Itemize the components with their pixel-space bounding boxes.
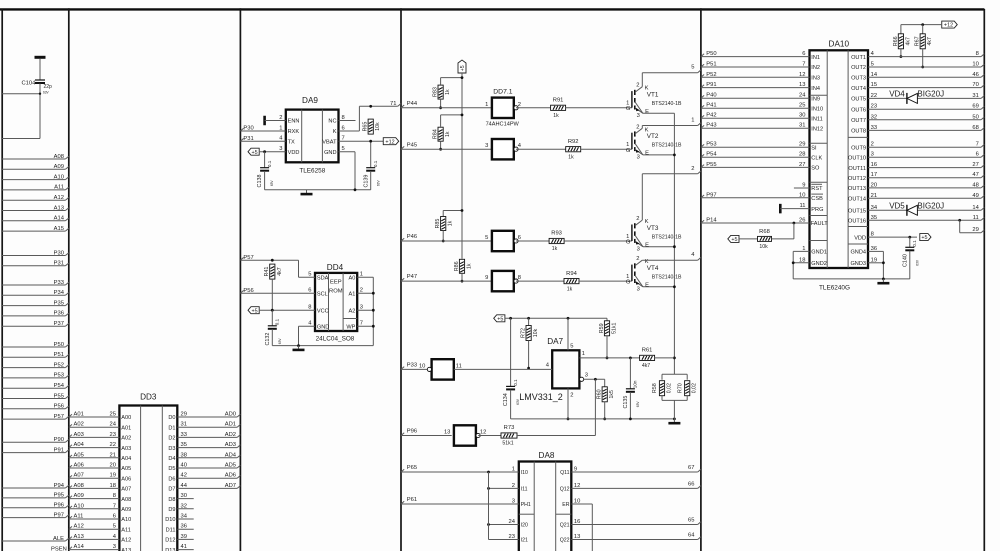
svg-text:P52: P52	[54, 362, 64, 368]
svg-text:AD0: AD0	[225, 412, 236, 418]
wire VT1 collector to net 5	[642, 65, 701, 73]
wire net ALE (MCU)	[2, 536, 69, 542]
svg-text:A01: A01	[74, 412, 84, 418]
svg-text:OUT12: OUT12	[848, 176, 866, 182]
wire net P91 (MCU)	[2, 447, 69, 453]
inverter gate DD7.1d	[485, 271, 521, 291]
resistor R61	[640, 348, 655, 370]
svg-text:14: 14	[972, 205, 979, 211]
svg-text:11: 11	[799, 203, 805, 209]
svg-text:P47: P47	[407, 274, 417, 280]
svg-text:6: 6	[342, 126, 345, 132]
DA10 pin 11 PRG with bar terminal	[780, 203, 823, 213]
svg-text:P53: P53	[706, 142, 716, 148]
svg-text:13: 13	[574, 534, 580, 540]
svg-text:P50: P50	[706, 51, 716, 57]
svg-text:16: 16	[871, 162, 877, 168]
DA7 pin 3 output	[580, 373, 605, 382]
svg-text:A12: A12	[74, 524, 84, 530]
svg-text:22: 22	[110, 442, 116, 448]
svg-text:D2: D2	[168, 436, 175, 442]
svg-text:DD7.1: DD7.1	[493, 89, 512, 96]
wire gate6 to R73	[478, 435, 501, 437]
svg-text:P34: P34	[54, 290, 65, 296]
wire DA8 Q12 to net 66	[560, 482, 701, 493]
capacitor C138	[257, 150, 274, 190]
svg-text:1: 1	[802, 246, 805, 252]
svg-text:P97: P97	[706, 192, 716, 198]
svg-text:63V: 63V	[278, 338, 282, 345]
svg-text:AD3: AD3	[225, 442, 236, 448]
DD4 pin 3 A2	[349, 305, 374, 315]
diode VD5	[889, 202, 944, 216]
svg-text:67: 67	[688, 465, 694, 471]
svg-text:IN1: IN1	[811, 55, 820, 61]
svg-text:PSEN: PSEN	[51, 546, 67, 551]
svg-text:D1: D1	[168, 425, 175, 431]
svg-text:D6: D6	[168, 476, 175, 482]
wire net P65	[401, 465, 528, 476]
chip DD3 body	[119, 406, 177, 551]
svg-text:GND3: GND3	[850, 261, 866, 267]
svg-text:A15: A15	[54, 226, 64, 232]
svg-text:47: 47	[972, 172, 978, 178]
wire DA8 input strap	[488, 472, 490, 540]
chip DD4 body	[315, 273, 357, 331]
wire net P96 (MCU)	[2, 503, 69, 509]
svg-text:OUT5: OUT5	[851, 97, 866, 103]
svg-text:C138: C138	[257, 175, 263, 188]
svg-text:A11: A11	[74, 514, 84, 520]
wire net P96	[401, 429, 452, 436]
svg-text:C139: C139	[363, 175, 369, 188]
wire DA7 ground rail	[511, 418, 676, 421]
wire net P43 to DA10 IN12	[701, 123, 823, 133]
svg-text:VDD: VDD	[288, 150, 300, 156]
wire net A10 (MCU)	[2, 174, 69, 180]
svg-text:Q11: Q11	[560, 470, 570, 476]
wire DA8 ER pin10	[562, 499, 592, 551]
svg-text:11: 11	[973, 215, 979, 221]
svg-text:26: 26	[799, 218, 805, 224]
svg-text:20: 20	[871, 182, 877, 188]
DA7 pin 1 output	[579, 351, 639, 359]
svg-text:7: 7	[360, 321, 363, 327]
svg-text:OUT10: OUT10	[848, 155, 866, 161]
svg-text:7: 7	[113, 503, 116, 509]
svg-text:10: 10	[574, 499, 580, 505]
svg-text:3: 3	[485, 143, 488, 149]
wire net P97 to DA10 /CSB	[701, 192, 823, 202]
svg-text:70: 70	[972, 82, 978, 88]
resistor R83	[433, 76, 464, 109]
svg-text:D5: D5	[168, 466, 175, 472]
svg-text:VDD: VDD	[854, 235, 866, 241]
svg-text:+5: +5	[460, 65, 466, 71]
svg-text:GND2: GND2	[811, 261, 827, 267]
transistor VT1	[626, 73, 682, 119]
svg-text:Q12: Q12	[560, 487, 570, 493]
svg-text:CSB: CSB	[811, 196, 823, 202]
svg-text:31: 31	[972, 93, 978, 99]
svg-text:P65: P65	[407, 465, 417, 471]
svg-text:IN4: IN4	[811, 86, 820, 92]
wire net P61	[401, 497, 531, 508]
svg-text:A12: A12	[121, 538, 131, 544]
svg-text:R93: R93	[551, 231, 562, 237]
svg-text:38: 38	[181, 452, 187, 458]
power flag +5 (gate pull-up rail)	[458, 60, 466, 259]
svg-text:A04: A04	[74, 442, 85, 448]
DA9 pin 8 NC stub	[328, 115, 355, 125]
svg-text:8: 8	[113, 493, 116, 499]
svg-text:R60: R60	[597, 389, 603, 399]
svg-text:10: 10	[972, 62, 978, 68]
wire net P57 (MCU)	[2, 414, 69, 420]
svg-text:D11: D11	[166, 527, 176, 533]
svg-text:63V: 63V	[915, 259, 919, 266]
svg-text:2: 2	[512, 483, 515, 489]
svg-text:8: 8	[871, 232, 874, 238]
wire DA10 OUT8 to net 68	[851, 125, 984, 135]
svg-text:BTS2140-1B: BTS2140-1B	[652, 143, 682, 149]
svg-text:5: 5	[691, 65, 694, 71]
DD3 pin 3 (A14)	[69, 544, 131, 551]
svg-text:A08: A08	[74, 483, 84, 489]
svg-text:10k: 10k	[375, 122, 381, 131]
wire DA10 OUT10 to net 6	[848, 152, 984, 162]
svg-text:1k: 1k	[553, 113, 559, 119]
svg-text:36: 36	[871, 246, 877, 252]
svg-text:64: 64	[688, 533, 695, 539]
svg-text:OUT6: OUT6	[851, 107, 866, 113]
wire net A12 (MCU)	[2, 195, 69, 201]
wire net P54 to DA10 CLK	[701, 152, 823, 162]
svg-text:P42: P42	[706, 113, 716, 119]
svg-text:3: 3	[585, 373, 588, 379]
svg-text:2: 2	[518, 102, 521, 108]
wire OUT16 branch to net 29	[958, 219, 984, 233]
wire DA10 OUT7 to net 50	[851, 114, 984, 124]
svg-text:A2: A2	[349, 308, 356, 314]
svg-text:5: 5	[342, 146, 345, 152]
svg-text:8: 8	[308, 305, 311, 311]
svg-text:R67: R67	[915, 36, 921, 46]
svg-text:30: 30	[799, 113, 805, 119]
svg-text:29: 29	[972, 227, 978, 233]
DD3 pin 40 (D5)	[168, 463, 240, 473]
DD3 pin 24 (A02)	[69, 422, 131, 432]
svg-text:P56: P56	[54, 404, 64, 410]
svg-text:12: 12	[480, 430, 486, 436]
wire net A14 (MCU)	[2, 216, 69, 222]
svg-text:24: 24	[110, 422, 117, 428]
svg-text:P33: P33	[407, 363, 417, 369]
svg-text:14: 14	[871, 72, 878, 78]
resistor R67	[915, 25, 934, 69]
svg-text:A00: A00	[121, 415, 131, 421]
svg-text:6: 6	[518, 235, 521, 241]
svg-text:BTS2140-1B: BTS2140-1B	[652, 234, 682, 240]
wire net P52 (MCU)	[2, 362, 69, 368]
svg-text:A10: A10	[74, 503, 84, 509]
svg-text:2: 2	[360, 288, 363, 294]
svg-text:D0: D0	[168, 415, 175, 421]
svg-text:0.1: 0.1	[267, 160, 272, 167]
DA10 pin 9 /RST stub	[794, 183, 823, 193]
svg-text:4k7: 4k7	[277, 267, 283, 275]
svg-text:3: 3	[512, 499, 515, 505]
wire net P56 (MCU)	[2, 404, 69, 410]
svg-text:WP: WP	[346, 324, 355, 330]
svg-text:41: 41	[181, 544, 187, 550]
svg-text:LMV331_2: LMV331_2	[519, 392, 563, 402]
svg-text:9: 9	[485, 275, 488, 281]
svg-text:10: 10	[419, 363, 425, 369]
svg-text:A04: A04	[121, 456, 131, 462]
svg-text:10k: 10k	[533, 328, 539, 337]
svg-text:44: 44	[181, 483, 188, 489]
svg-text:18: 18	[799, 257, 805, 263]
svg-text:P55: P55	[706, 162, 716, 168]
svg-text:1: 1	[512, 467, 515, 473]
wire net P50 to DA10 IN1	[701, 51, 820, 61]
svg-text:7: 7	[342, 136, 345, 142]
sheet border B-C	[239, 8, 241, 551]
svg-text:P51: P51	[706, 62, 716, 68]
capacitor C132	[265, 310, 282, 345]
wire gate4 to R94	[516, 280, 564, 282]
svg-text:5: 5	[308, 272, 311, 278]
svg-text:29: 29	[181, 412, 187, 418]
svg-text:11: 11	[456, 363, 462, 369]
svg-text:3: 3	[360, 305, 363, 311]
wire VT4 collector to net 4	[642, 252, 701, 260]
svg-text:D10: D10	[165, 517, 175, 523]
svg-text:18: 18	[110, 483, 116, 489]
svg-text:A13: A13	[74, 534, 84, 540]
wire DA9 ground rail	[265, 188, 371, 191]
svg-text:1: 1	[691, 118, 694, 124]
svg-text:27: 27	[972, 162, 978, 168]
svg-text:P90: P90	[54, 437, 64, 443]
svg-text:25: 25	[110, 412, 116, 418]
svg-text:34: 34	[871, 205, 878, 211]
svg-text:33: 33	[871, 125, 877, 131]
svg-text:AD7: AD7	[225, 483, 236, 489]
svg-text:A08: A08	[54, 154, 64, 160]
chip DA10 body	[810, 50, 869, 268]
sheet border A-B	[68, 8, 70, 551]
DD3 pin 30 (D8)	[168, 493, 193, 503]
power flag +5 (R68)	[728, 235, 758, 243]
svg-text:A06: A06	[121, 476, 131, 482]
svg-text:A13: A13	[54, 205, 64, 211]
wire net P51 to DA10 IN2	[701, 62, 820, 72]
svg-text:10: 10	[799, 192, 805, 198]
svg-text:3: 3	[637, 246, 640, 252]
svg-text:A14: A14	[74, 544, 85, 550]
resistor R93	[549, 231, 564, 253]
wire DD4 ground rail	[272, 344, 373, 347]
power flag +5 (DD4 VCC)	[248, 305, 329, 315]
svg-text:A10: A10	[121, 517, 131, 523]
svg-text:P51: P51	[54, 352, 64, 358]
svg-text:ROM: ROM	[329, 289, 343, 295]
svg-text:A1: A1	[349, 291, 356, 297]
svg-text:1k: 1k	[568, 154, 574, 160]
svg-text:OUT15: OUT15	[848, 209, 866, 215]
svg-text:A0: A0	[349, 275, 356, 281]
wire DA10 OUT13 to net 48	[848, 182, 984, 192]
svg-text:21: 21	[871, 193, 877, 199]
DA7 pin 5	[568, 318, 574, 350]
wire net P31 to DA9 TX	[240, 136, 295, 146]
wire VT3 collector to net 2	[642, 166, 701, 174]
svg-text:65: 65	[688, 518, 694, 524]
svg-text:R58: R58	[652, 383, 658, 393]
svg-text:VCC: VCC	[317, 308, 329, 314]
svg-text:66: 66	[688, 482, 694, 488]
svg-text:R85: R85	[435, 219, 441, 229]
svg-text:7: 7	[802, 62, 805, 68]
svg-text:+5: +5	[497, 316, 503, 322]
svg-text:IN2: IN2	[811, 65, 820, 71]
DA10 GND4 pin	[850, 246, 883, 256]
svg-text:1: 1	[582, 351, 585, 357]
wire DA10 OUT1 to net 8	[851, 51, 984, 61]
wire R91 to VT1 gate	[566, 107, 632, 109]
svg-text:24: 24	[509, 519, 516, 525]
svg-text:ENN: ENN	[288, 119, 300, 125]
svg-text:D7: D7	[168, 487, 175, 493]
svg-text:50: 50	[972, 114, 978, 120]
DD4 pin 7 WP	[346, 321, 373, 331]
svg-text:P52: P52	[706, 72, 716, 78]
svg-text:+5: +5	[731, 237, 737, 243]
power flag +5 (DA9 VDD)	[248, 146, 299, 156]
ground (DD4)	[293, 346, 305, 350]
svg-text:OUT7: OUT7	[851, 118, 866, 124]
wire DA10 ground rail	[793, 278, 910, 280]
DD3 pin 35 (D3)	[168, 442, 240, 452]
resistor R59	[599, 318, 618, 359]
capacitor C139	[363, 143, 380, 190]
svg-text:36: 36	[181, 524, 187, 530]
svg-text:OUT13: OUT13	[848, 186, 866, 192]
wire net P57 to DD4 SDA	[240, 255, 328, 282]
DA10 GND2 pin	[792, 251, 827, 279]
svg-text:13: 13	[799, 82, 805, 88]
svg-text:R61: R61	[642, 348, 653, 354]
svg-text:12: 12	[799, 72, 805, 78]
wire emitter sense bus	[673, 113, 676, 374]
svg-text:AD4: AD4	[225, 452, 237, 458]
svg-text:OUT11: OUT11	[848, 166, 866, 172]
wire net P46	[401, 234, 492, 241]
svg-text:A08: A08	[121, 497, 131, 503]
wire DA10 OUT2 to net 10	[851, 62, 984, 72]
svg-text:28: 28	[799, 152, 805, 158]
svg-text:A07: A07	[121, 487, 131, 493]
svg-text:OUT1: OUT1	[851, 55, 866, 61]
wire DA10 OUT11 to net 27	[848, 162, 984, 172]
DD3 pin 33 (D2)	[168, 432, 240, 442]
DD3 pin 41 (D13)	[165, 544, 193, 551]
svg-text:A05: A05	[74, 452, 84, 458]
svg-text:C140: C140	[902, 254, 908, 267]
svg-text:ALE: ALE	[53, 536, 64, 542]
svg-text:R65: R65	[363, 122, 369, 132]
svg-text:I21: I21	[521, 538, 528, 544]
svg-text:GND: GND	[317, 324, 329, 330]
svg-text:34: 34	[181, 514, 188, 520]
svg-text:K: K	[333, 129, 337, 135]
chip DD3 title	[140, 393, 157, 402]
svg-text:9: 9	[574, 467, 577, 473]
wire DA8 pin23	[489, 534, 529, 544]
svg-text:C104: C104	[22, 81, 37, 87]
svg-text:TLE6240G: TLE6240G	[819, 285, 850, 292]
wire net A09 (MCU)	[2, 164, 69, 170]
transistor VT4	[626, 256, 682, 292]
svg-text:0.1: 0.1	[373, 160, 378, 167]
svg-text:G: G	[626, 106, 631, 112]
transistor VT2	[626, 124, 682, 160]
wire VT2 collector to net 1	[642, 118, 701, 126]
ground (DA9)	[301, 190, 313, 194]
svg-text:P96: P96	[54, 503, 64, 509]
wire gate5 to DA7 pin4	[454, 363, 552, 370]
wire R94 to VT4 gate	[579, 280, 632, 282]
wire net P30 (MCU)	[2, 250, 69, 256]
chip DA7 body	[552, 350, 579, 388]
wire net P97 (MCU)	[2, 512, 69, 518]
svg-text:19: 19	[110, 473, 116, 479]
svg-text:P30: P30	[243, 126, 253, 132]
svg-text:OUT14: OUT14	[848, 197, 866, 203]
svg-text:R94: R94	[566, 271, 577, 277]
wire R92 to VT2 gate	[581, 148, 632, 150]
wire R61 to sense bus	[655, 357, 675, 359]
svg-text:A03: A03	[74, 432, 84, 438]
sheet top border	[0, 8, 984, 10]
svg-text:E: E	[645, 283, 649, 289]
svg-text:PRG: PRG	[811, 207, 823, 213]
capacitor C104	[22, 57, 53, 138]
DD3 pin 34 (D10)	[165, 514, 193, 524]
svg-text:D3: D3	[168, 446, 175, 452]
wire DA10 OUT5 to net 31	[851, 93, 984, 103]
transistor VT3	[626, 174, 682, 253]
svg-text:5: 5	[871, 62, 874, 68]
DD3 pin 39 (D12)	[165, 534, 193, 544]
resistor R41	[264, 264, 283, 310]
resistor R84	[433, 114, 464, 151]
svg-text:P54: P54	[54, 383, 65, 389]
svg-text:DA9: DA9	[302, 96, 318, 105]
svg-text:OUT16: OUT16	[848, 219, 866, 225]
DD4 GND pin wire	[299, 321, 330, 346]
power flag +5 (DA7)	[494, 315, 607, 323]
svg-text:P96: P96	[407, 429, 417, 435]
wire net P51 (MCU)	[2, 352, 69, 358]
svg-text:69: 69	[972, 104, 978, 110]
DD3 pin 19 (A07)	[69, 473, 131, 483]
svg-text:A01: A01	[121, 425, 131, 431]
svg-text:AD5: AD5	[225, 463, 236, 469]
svg-text:P91: P91	[54, 447, 64, 453]
